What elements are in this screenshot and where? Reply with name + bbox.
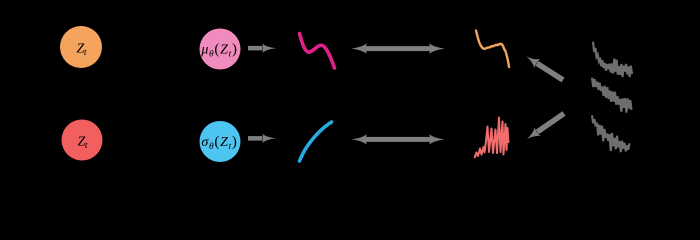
arrow from sample paths to drift (up-left) (524, 52, 566, 84)
mu function curve (magenta) (300, 34, 335, 69)
arrow from sample paths to diffusion (down-left) (524, 109, 567, 143)
arrow from mu node to mu-curve (248, 44, 276, 53)
arrow from sigma node to sigma-curve (248, 134, 276, 143)
node Z_t (latent, top) (60, 26, 102, 68)
double arrow bottom (sigma-curve <-> diffusion estimate) (352, 134, 445, 144)
empirical drift curve (orange, wiggly) (476, 31, 509, 68)
sample path 3 (gray time series) (592, 115, 630, 152)
node mu_theta(Z_t) (200, 29, 241, 70)
sample path 1 (gray time series) (593, 42, 632, 77)
double arrow top (mu-curve <-> drift estimate) (352, 43, 445, 53)
svg-text:σθ(Zt): σθ(Zt) (201, 134, 237, 152)
sample path 2 (gray time series) (592, 78, 632, 113)
svg-text:μθ(Zt): μθ(Zt) (200, 42, 237, 60)
empirical diffusion plot (red, jagged) (475, 118, 509, 159)
node sigma_theta(Z_t) (200, 121, 241, 162)
sigma function curve (blue) (300, 122, 332, 161)
node Z_t (latent, bottom) (62, 120, 103, 161)
